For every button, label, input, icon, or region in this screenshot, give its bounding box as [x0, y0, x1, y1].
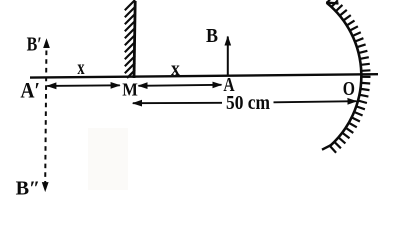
object arrow AB	[227, 37, 229, 77]
svg-text:O: O	[343, 78, 355, 100]
dimension arrow 50 cm left part	[133, 102, 222, 104]
svg-text:M: M	[122, 80, 138, 100]
svg-text:B′: B′	[27, 33, 42, 55]
svg-text:B″: B″	[16, 177, 41, 199]
dimension arrow 50 cm right part	[274, 101, 357, 102]
svg-text:x: x	[171, 58, 180, 80]
svg-text:A′: A′	[20, 77, 40, 102]
dimension arrow M to A	[138, 85, 221, 86]
plane mirror hatching	[125, 0, 135, 78]
dimension arrow A' to M	[47, 84, 120, 87]
concave mirror hatching	[327, 0, 370, 153]
svg-text:50 cm: 50 cm	[226, 92, 270, 114]
dashed line top arrowhead	[46, 39, 48, 47]
principal axis	[30, 74, 378, 77]
plane mirror M	[134, 1, 135, 78]
concave mirror bottom end tail	[322, 145, 331, 149]
virtual image dashed line B' B''	[45, 51, 46, 184]
dashed line bottom arrowhead	[44, 183, 46, 191]
concave mirror arc	[327, 3, 361, 146]
svg-text:x: x	[77, 57, 84, 79]
svg-text:B: B	[206, 25, 218, 47]
concave mirror top end tail	[326, 1, 339, 4]
